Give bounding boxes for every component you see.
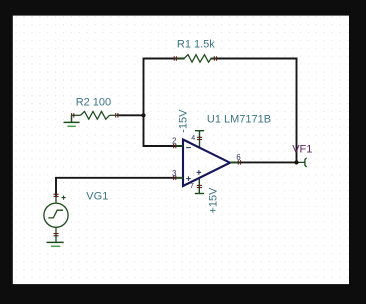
voltage pin VF1 <box>299 158 307 167</box>
pin ticks R2 <box>72 113 118 117</box>
svg-text:+15V: +15V <box>208 187 220 214</box>
pin ticks pin 3 <box>174 176 176 180</box>
svg-text:-15V: -15V <box>178 109 190 133</box>
wire feedback top <box>144 58 298 60</box>
svg-text:3: 3 <box>172 169 177 178</box>
svg-text:VG1: VG1 <box>86 190 108 202</box>
pin ticks VG1 bottom <box>54 234 59 236</box>
svg-text:VF1: VF1 <box>292 143 312 155</box>
pin ticks R1 <box>174 56 216 60</box>
node output <box>294 160 298 164</box>
op-amp power pin bottom lead <box>195 178 204 194</box>
svg-text:R2 100: R2 100 <box>76 96 111 108</box>
ground (at R2 input) <box>64 115 80 126</box>
pin stub 2 <box>175 145 183 147</box>
svg-text:2: 2 <box>172 137 177 146</box>
resistor R1 <box>174 55 217 63</box>
pin stub 6 <box>230 161 240 163</box>
pin ticks VG1 top <box>54 194 59 196</box>
op-amp minus mark <box>186 147 191 149</box>
node junction (inverting input) <box>141 113 145 117</box>
wire feedback right vertical <box>296 58 298 163</box>
op-amp power pin top lead <box>195 131 204 148</box>
pin stub 3 <box>175 177 183 179</box>
wire R2 to junction <box>117 114 144 116</box>
wire output <box>231 161 297 163</box>
svg-text:7: 7 <box>190 183 194 190</box>
pin ticks pin 2 <box>174 144 176 148</box>
resistor R2 <box>72 111 118 119</box>
op-amp plus mark (supply) <box>197 170 202 175</box>
wire pin 2 horizontal <box>143 145 183 147</box>
svg-text:U1 LM7171B: U1 LM7171B <box>207 113 271 125</box>
ground (at VG1) <box>47 242 64 246</box>
svg-text:4: 4 <box>191 135 195 142</box>
pin ticks pin 6 <box>238 160 240 164</box>
wire left vertical (junction to pin 2 corner) <box>143 58 145 146</box>
wire VG1 to pin 3 <box>56 178 183 196</box>
svg-text:6: 6 <box>236 153 241 162</box>
pin ticks pin 4 <box>197 137 202 139</box>
pin ticks pin 7 <box>197 185 202 187</box>
op-amp U1 triangle <box>183 140 230 187</box>
source VG1 <box>44 194 68 242</box>
op-amp plus mark (input) <box>186 176 191 181</box>
svg-text:R1 1.5k: R1 1.5k <box>177 39 215 51</box>
VG1 plus polarity <box>62 196 66 200</box>
